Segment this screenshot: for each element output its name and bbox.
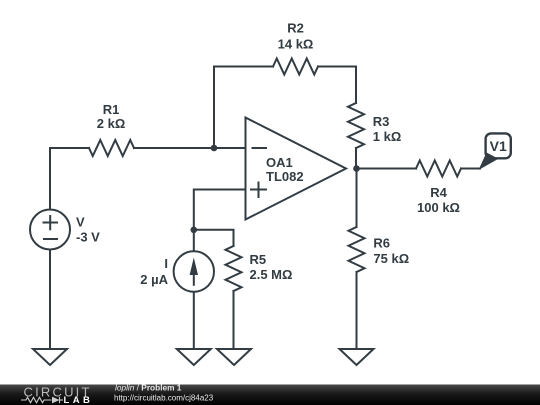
flag V1 pointer [479,153,499,171]
node junction [211,145,218,152]
svg-text:R4: R4 [430,185,447,200]
svg-text:2.5 MΩ: 2.5 MΩ [250,267,293,282]
wire [356,169,358,228]
ground [217,349,251,365]
resistor R6 [349,227,365,272]
svg-text:LAB: LAB [64,395,94,405]
resistor R3 [348,103,364,148]
svg-text:-3 V: -3 V [76,230,100,245]
flag V1 [486,133,511,158]
wire [194,230,234,246]
ground [33,349,67,365]
wire [461,168,480,170]
svg-text:V: V [76,215,85,230]
svg-text:14 kΩ: 14 kΩ [278,36,314,51]
wire [214,67,273,149]
svg-text:loplin / Problem 1: loplin / Problem 1 [115,383,182,393]
wire [193,230,195,252]
resistor R1 [89,140,134,156]
wire [134,147,246,149]
wire [318,67,356,104]
ground [340,349,374,365]
resistor R5 [226,246,242,291]
svg-text:1 kΩ: 1 kΩ [373,129,402,144]
node junction [191,227,198,234]
node junction [353,165,360,172]
wire [356,272,358,349]
voltage source V [30,210,70,250]
svg-text:2 kΩ: 2 kΩ [97,116,126,131]
op-amp OA1 [246,118,347,220]
wire [355,148,357,169]
svg-text:R5: R5 [250,252,267,267]
wire [49,250,51,350]
wire [50,147,89,149]
svg-text:75 kΩ: 75 kΩ [373,251,409,266]
svg-text:OA1: OA1 [266,155,293,170]
svg-text:V1: V1 [490,138,507,154]
svg-text:R1: R1 [103,102,120,117]
svg-text:R6: R6 [373,235,390,250]
resistor R2 [273,59,318,75]
resistor R4 [416,161,461,177]
svg-text:2 µA: 2 µA [140,272,168,287]
wire [49,148,51,210]
wire [194,190,246,230]
svg-text:http://circuitlab.com/cj84a23: http://circuitlab.com/cj84a23 [114,393,214,402]
wire [193,292,195,349]
svg-text:R3: R3 [373,114,390,129]
wire [357,168,417,170]
logo diode [52,397,60,404]
svg-text:TL082: TL082 [266,169,304,184]
wire [233,291,235,349]
logo resistor zigzag [21,397,63,403]
current source arrowhead [190,258,198,276]
ground [177,349,211,365]
svg-text:100 kΩ: 100 kΩ [417,200,460,215]
current source I [174,251,214,291]
svg-text:I: I [164,256,168,271]
svg-text:R2: R2 [287,20,304,35]
